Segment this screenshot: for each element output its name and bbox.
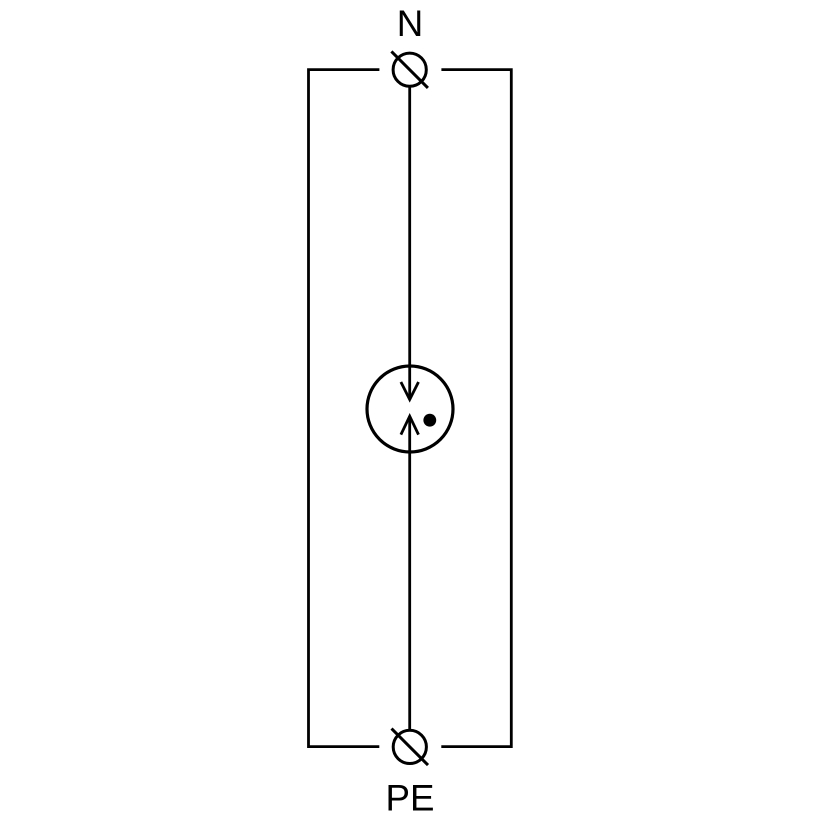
wire box left side — [309, 70, 380, 747]
wire from spark gap down to terminal PE — [408, 416, 411, 730]
svg-text:N: N — [397, 3, 424, 44]
arrowhead up (lower electrode) — [401, 416, 419, 434]
svg-text:PE: PE — [386, 777, 435, 818]
gas-filled indicator dot — [423, 414, 436, 427]
wire from terminal N down to spark gap — [408, 86, 411, 400]
surge arrester (spark gap) U1 circle — [367, 366, 453, 452]
wire box right side — [441, 70, 511, 747]
arrowhead down (upper electrode) — [401, 382, 419, 400]
terminal N (circle with slash) — [391, 51, 428, 88]
terminal PE (circle with slash) — [392, 729, 429, 766]
